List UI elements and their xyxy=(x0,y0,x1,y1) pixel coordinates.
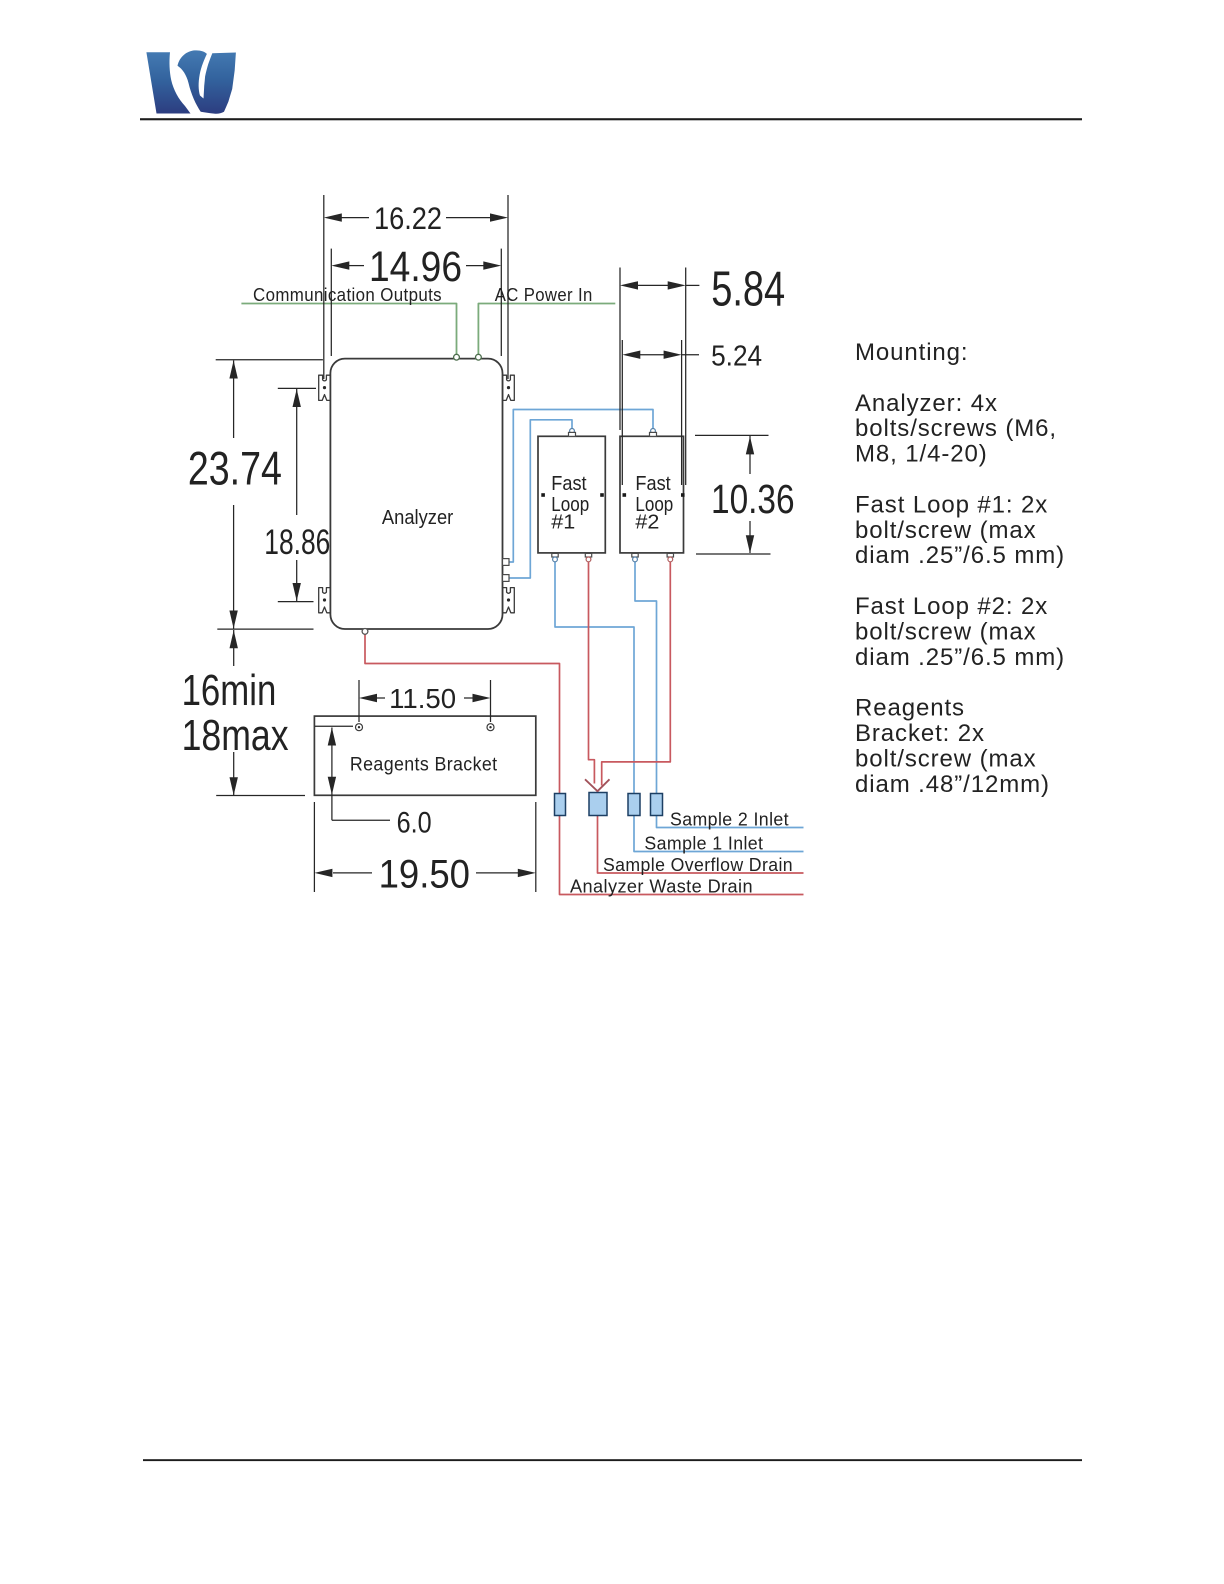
svg-text:Mounting:: Mounting: xyxy=(855,339,969,366)
svg-text:#2: #2 xyxy=(635,512,659,534)
svg-text:Fast: Fast xyxy=(635,473,671,495)
svg-text:11.50: 11.50 xyxy=(389,683,456,714)
svg-text:5.24: 5.24 xyxy=(711,340,762,372)
svg-text:Bracket: 2x: Bracket: 2x xyxy=(855,720,985,747)
svg-text:18.86: 18.86 xyxy=(264,523,330,562)
svg-text:Fast Loop #2: 2x: Fast Loop #2: 2x xyxy=(855,593,1048,620)
svg-text:diam .48”/12mm): diam .48”/12mm) xyxy=(855,771,1050,798)
svg-text:16min: 16min xyxy=(182,666,277,715)
svg-text:10.36: 10.36 xyxy=(711,476,795,522)
svg-text:bolt/screw (max: bolt/screw (max xyxy=(855,618,1037,645)
svg-text:AC Power In: AC Power In xyxy=(495,285,593,305)
svg-text:6.0: 6.0 xyxy=(397,806,432,839)
svg-text:bolts/screws (M6,: bolts/screws (M6, xyxy=(855,415,1057,442)
svg-text:bolt/screw (max: bolt/screw (max xyxy=(855,517,1037,544)
svg-text:18max: 18max xyxy=(182,711,289,760)
svg-text:#1: #1 xyxy=(551,512,575,534)
svg-text:16.22: 16.22 xyxy=(374,200,442,236)
svg-text:diam .25”/6.5 mm): diam .25”/6.5 mm) xyxy=(855,542,1065,569)
svg-text:Reagents Bracket: Reagents Bracket xyxy=(350,754,498,775)
svg-text:19.50: 19.50 xyxy=(379,853,470,897)
svg-text:Fast Loop #1: 2x: Fast Loop #1: 2x xyxy=(855,491,1048,518)
svg-text:Analyzer Waste Drain: Analyzer Waste Drain xyxy=(570,877,753,897)
svg-text:Sample 2 Inlet: Sample 2 Inlet xyxy=(670,810,789,830)
svg-text:diam .25”/6.5 mm): diam .25”/6.5 mm) xyxy=(855,644,1065,671)
svg-text:M8, 1/4-20): M8, 1/4-20) xyxy=(855,441,988,468)
svg-text:23.74: 23.74 xyxy=(188,442,282,495)
svg-text:Fast: Fast xyxy=(551,473,587,495)
svg-text:Sample Overflow Drain: Sample Overflow Drain xyxy=(603,855,793,875)
svg-text:Communication Outputs: Communication Outputs xyxy=(253,285,442,305)
svg-text:Sample 1 Inlet: Sample 1 Inlet xyxy=(644,834,763,854)
svg-text:Analyzer: 4x: Analyzer: 4x xyxy=(855,390,998,417)
svg-text:Reagents: Reagents xyxy=(855,695,965,722)
svg-text:5.84: 5.84 xyxy=(711,263,785,317)
svg-text:Analyzer: Analyzer xyxy=(382,507,454,529)
svg-text:bolt/screw (max: bolt/screw (max xyxy=(855,745,1037,772)
